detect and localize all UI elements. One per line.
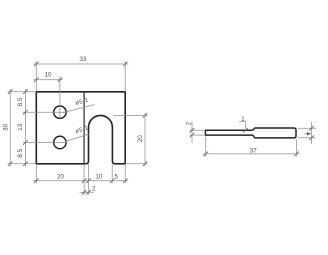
svg-text:20: 20 bbox=[57, 174, 65, 181]
svg-text:10: 10 bbox=[95, 174, 103, 181]
svg-text:2: 2 bbox=[186, 121, 193, 125]
svg-text:8.5: 8.5 bbox=[17, 148, 24, 157]
svg-text:5: 5 bbox=[114, 174, 118, 181]
svg-text:30: 30 bbox=[2, 123, 9, 131]
svg-text:2: 2 bbox=[92, 185, 96, 192]
svg-text:1: 1 bbox=[241, 116, 245, 123]
svg-text:20: 20 bbox=[137, 135, 144, 143]
svg-text:37: 37 bbox=[250, 148, 258, 155]
svg-text:33: 33 bbox=[79, 56, 87, 63]
svg-text:13: 13 bbox=[17, 123, 24, 131]
svg-text:8.5: 8.5 bbox=[17, 97, 24, 106]
svg-text:10: 10 bbox=[44, 72, 52, 79]
